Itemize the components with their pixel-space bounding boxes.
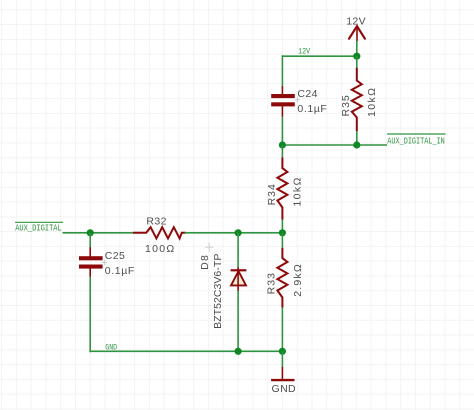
svg-text:C24: C24 — [297, 88, 317, 100]
junction R34/R33 node — [279, 229, 286, 236]
svg-text:12V: 12V — [298, 47, 310, 56]
wire GND rail — [90, 350, 282, 352]
junction R33 bottom — [279, 348, 286, 355]
svg-text:AUX_DIGITAL: AUX_DIGITAL — [15, 222, 62, 233]
svg-text:2.9kΩ: 2.9kΩ — [292, 263, 304, 297]
wire D8 column lower — [237, 291, 239, 352]
junction R35 bottom — [353, 141, 360, 148]
wire C24 column upper — [281, 55, 283, 86]
svg-text:10kΩ: 10kΩ — [366, 87, 378, 117]
svg-text:10kΩ: 10kΩ — [291, 176, 303, 206]
wire supply stem — [356, 41, 358, 56]
diode D8 zener — [199, 243, 246, 329]
wire D8 column upper — [237, 233, 239, 268]
junction C25 tap — [87, 229, 94, 236]
wire R33 column upper — [281, 233, 283, 248]
svg-text:BZT52C3V6-TP: BZT52C3V6-TP — [212, 254, 224, 329]
svg-text:AUX_DIGITAL_IN: AUX_DIGITAL_IN — [387, 135, 445, 146]
svg-text:GND: GND — [272, 383, 297, 395]
wire AUX_DIGITAL row right — [185, 232, 283, 234]
wire R34 column upper — [281, 145, 283, 158]
wire R34 column lower — [281, 220, 283, 233]
node GND rail label — [105, 344, 117, 353]
svg-text:R35: R35 — [340, 94, 352, 116]
junction C24/R34 — [279, 141, 286, 148]
wire R35 column upper — [356, 56, 358, 68]
wire 12V rail horizontal — [282, 55, 356, 57]
wire AUX_DIGITAL row left — [63, 232, 133, 234]
wire C25 column lower — [89, 277, 91, 353]
svg-text:0.1µF: 0.1µF — [297, 103, 327, 115]
svg-text:12V: 12V — [346, 15, 366, 27]
svg-text:R32: R32 — [146, 216, 166, 228]
wire GND stem — [281, 351, 283, 367]
wire R35 column lower — [356, 131, 358, 145]
wire R33 column lower — [281, 307, 283, 351]
svg-text:0.1µF: 0.1µF — [105, 265, 135, 277]
svg-text:R33: R33 — [266, 272, 278, 294]
node AUX_DIGITAL label — [15, 222, 63, 233]
ground GND symbol — [271, 367, 296, 395]
svg-text:D8: D8 — [199, 254, 211, 270]
svg-text:C25: C25 — [105, 250, 125, 262]
resistor R32 — [133, 216, 186, 255]
wire C24 column lower — [281, 117, 283, 146]
resistor R33 — [266, 248, 304, 308]
wire C25 column upper — [89, 233, 91, 248]
node AUX_DIGITAL_IN label — [387, 134, 446, 146]
resistor R34 — [266, 158, 303, 220]
capacitor C24 — [271, 86, 327, 116]
supply 12V U-arrow — [346, 15, 366, 41]
svg-text:100Ω: 100Ω — [145, 243, 176, 255]
junction node 12V — [353, 53, 360, 60]
wire AUX row — [282, 144, 387, 146]
junction D8 bottom — [235, 348, 242, 355]
svg-text:R34: R34 — [266, 183, 278, 205]
resistor R35 — [340, 68, 378, 132]
capacitor C25 — [79, 247, 135, 277]
node 12V label — [298, 47, 310, 56]
junction D8 top — [235, 229, 242, 236]
